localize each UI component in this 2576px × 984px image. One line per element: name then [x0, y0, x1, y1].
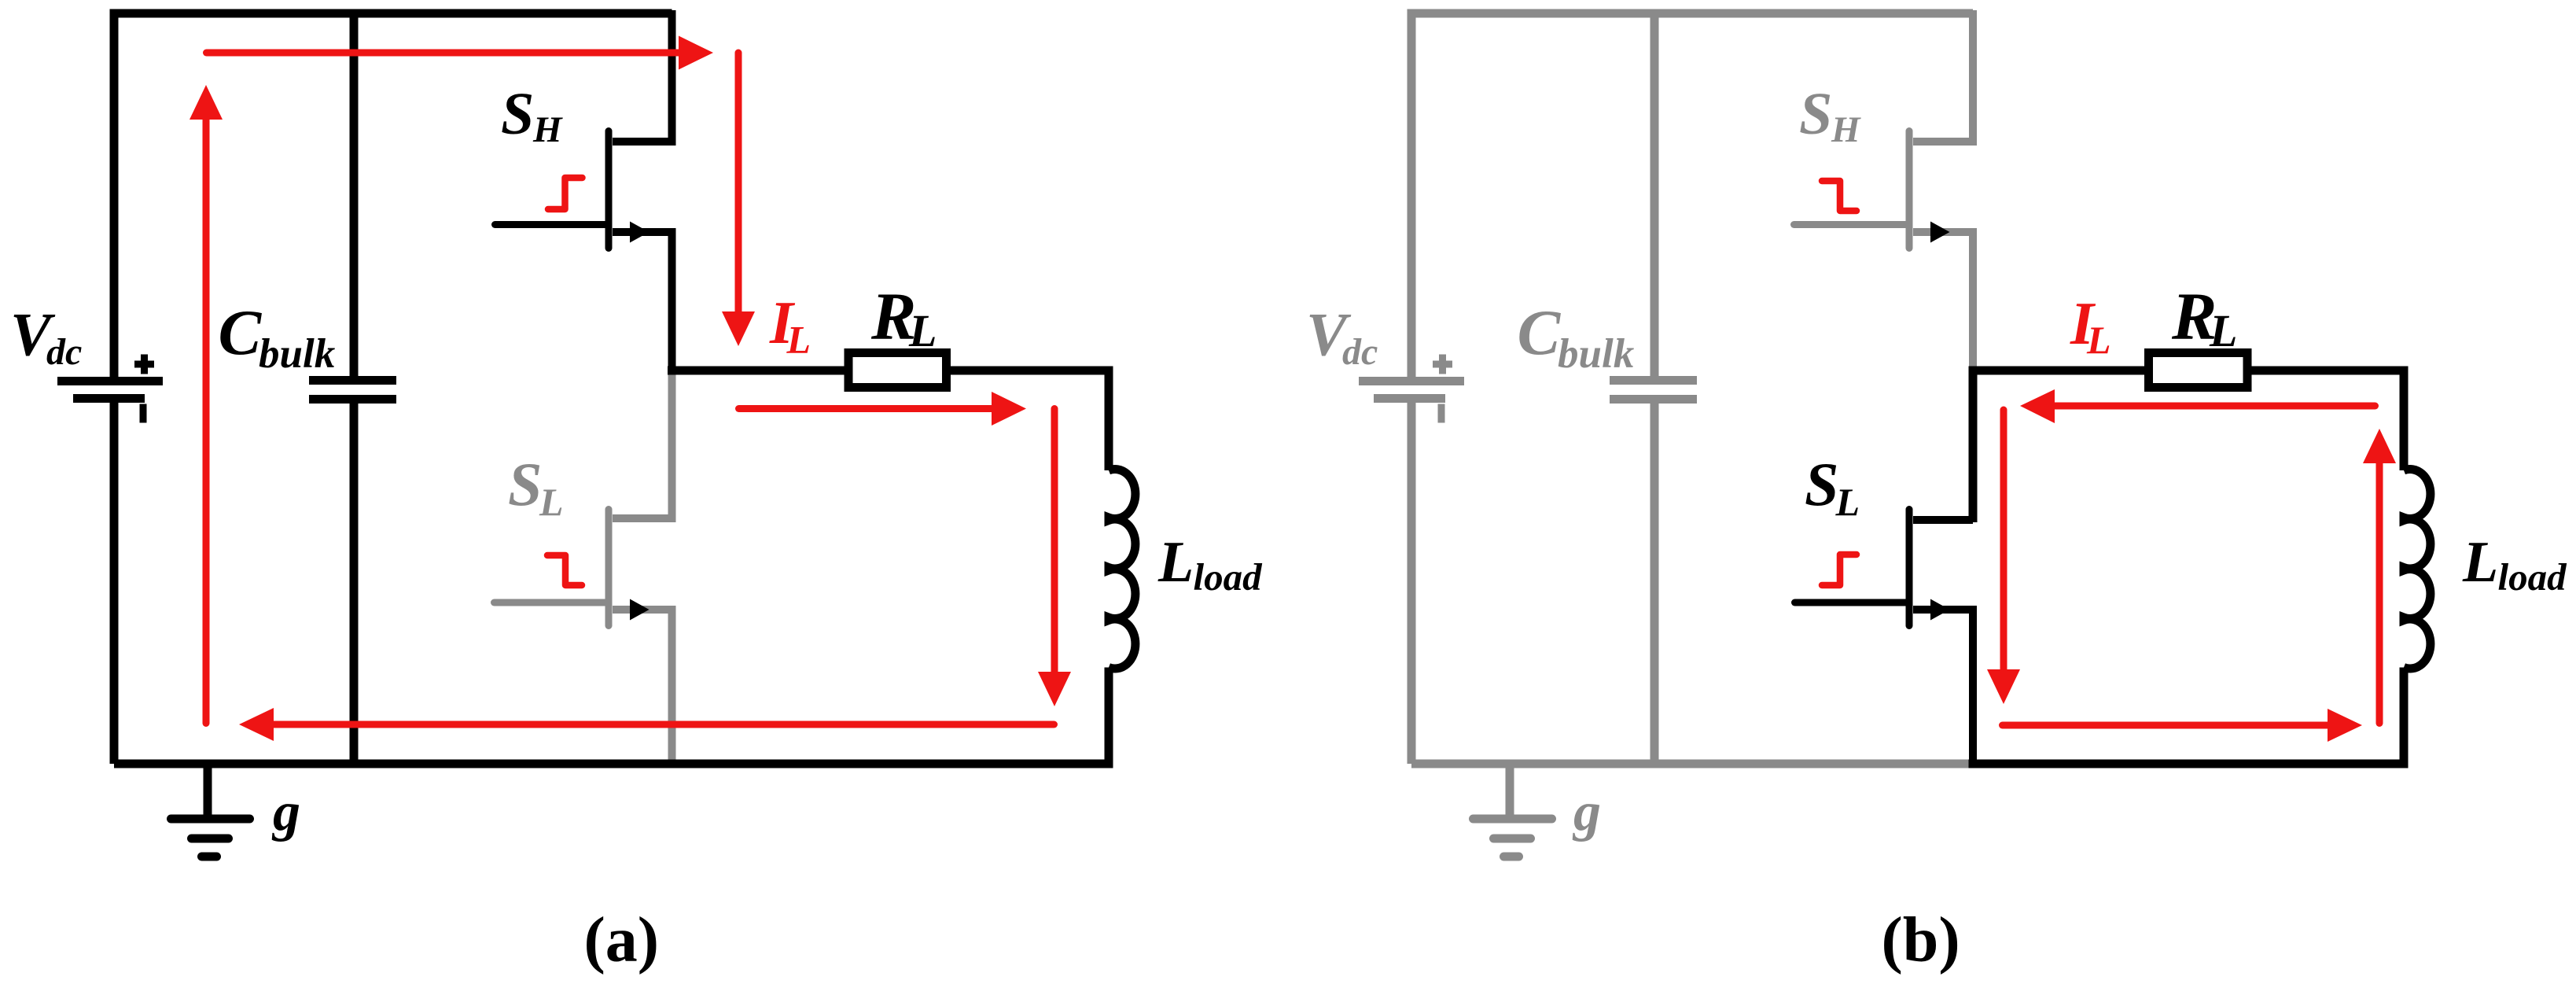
svg-text:L: L [2086, 318, 2111, 362]
svg-text:(a): (a) [584, 904, 660, 975]
wire: gray left branch + top rail + S_H drain branch [1411, 13, 1973, 381]
svg-text:dc: dc [1342, 331, 1378, 373]
ground symbol g (gray) [1506, 764, 1514, 819]
svg-text:L: L [1157, 530, 1194, 595]
resistor R_L body (b) [2149, 353, 2248, 388]
battery V_dc top plate [57, 377, 163, 385]
transistor S_H source lead down to output node [613, 232, 672, 370]
transistor S_H drain lead (gray) [1913, 10, 1973, 142]
current arrow: through R_L (red, rightward) [739, 405, 994, 412]
transistor S_L gate bar (black) [1906, 510, 1913, 626]
svg-text:S: S [508, 450, 542, 518]
wire: left branch top + top rail + S_H drain branch [114, 13, 672, 381]
current arrow: down through L_load (red) [1051, 409, 1058, 674]
transistor S_L gate lead (black) [1795, 599, 1907, 606]
battery minus mark [140, 404, 147, 423]
battery minus mark (gray) [1438, 404, 1445, 423]
gate pulse symbol (falling edge) at S_H (red) [1822, 181, 1857, 211]
capacitor C_bulk top plate [309, 376, 396, 385]
inductor L_load coils [1109, 470, 1135, 669]
svg-text:H: H [532, 109, 563, 150]
current arrow: up through C_bulk branch (red) [203, 120, 210, 724]
transistor S_L gate lead [495, 599, 606, 606]
svg-text:C: C [219, 297, 263, 368]
transistor S_L source lead + wire to bottom rail (black) [1913, 610, 1973, 764]
svg-text:(b): (b) [1882, 904, 1960, 975]
current arrow: bottom of loop (red, rightward, b) [2003, 722, 2328, 729]
svg-text:L: L [2462, 530, 2498, 595]
wire: resistor to inductor corner (b) [2247, 370, 2404, 470]
svg-text:H: H [1831, 109, 1861, 150]
battery V_dc bottom plate (gray) [1374, 394, 1445, 403]
current arrow: through R_L (red, leftward, b) [2054, 403, 2375, 410]
svg-text:L: L [539, 480, 564, 524]
transistor S_L (black, on): drain wire + left loop edge + top edge of loop [1913, 516, 1973, 524]
svg-text:bulk: bulk [259, 331, 336, 377]
current arrow: up through L_load (red, b) [2376, 463, 2383, 724]
wire: battery negative to bottom rail [110, 402, 119, 764]
battery V_dc top plate (gray) [1359, 377, 1464, 385]
svg-text:bulk: bulk [1558, 331, 1635, 377]
wire: output node to resistor R_L [668, 367, 850, 375]
transistor S_L gate bar [605, 510, 613, 626]
wire: capacitor branch upper [350, 13, 359, 377]
wire: gray capacitor branch lower [1650, 404, 1659, 764]
svg-text:C: C [1518, 297, 1562, 368]
transistor S_H gate lead [495, 221, 606, 228]
svg-text:L: L [908, 305, 937, 356]
resistor R_L body [848, 353, 947, 388]
wire: gray bottom rail [1411, 760, 1975, 768]
svg-text:dc: dc [46, 331, 82, 373]
transistor S_H gate bar (gray) [1906, 131, 1913, 249]
wire: left edge and top edge of load loop (b) [1973, 370, 2151, 522]
current arrow: down left side of loop (red, b) [2000, 410, 2007, 671]
transistor S_L source lead and wire down to ground rail [613, 610, 672, 764]
svg-text:S: S [1799, 81, 1832, 147]
battery plus mark [134, 355, 154, 374]
transistor S_H gate lead (gray) [1794, 221, 1907, 228]
capacitor C_bulk bottom plate (gray) [1610, 395, 1697, 404]
current arrow: top rail flow (red, rightward) [207, 50, 680, 57]
wire: capacitor branch lower [350, 404, 359, 764]
svg-text:L: L [2209, 305, 2237, 356]
svg-text:g: g [271, 782, 300, 842]
transistor S_L source arrowhead [1930, 599, 1950, 621]
current arrow: down through S_H (red) [735, 53, 742, 313]
svg-text:load: load [2498, 555, 2568, 599]
battery plus mark (gray) [1433, 355, 1452, 374]
current arrow: bottom return (red, leftward) [274, 721, 1054, 728]
svg-text:g: g [1572, 782, 1601, 842]
transistor S_H source arrowhead (black) [1930, 222, 1950, 243]
svg-text:S: S [1805, 450, 1838, 518]
ground symbol g [204, 764, 212, 819]
svg-text:S: S [501, 81, 534, 147]
wire: resistor to inductor corner [945, 370, 1109, 470]
transistor S_H drain lead [613, 10, 672, 142]
capacitor C_bulk bottom plate [309, 395, 396, 404]
svg-text:load: load [1194, 555, 1264, 599]
transistor S_L (gray, off) : drain wire from output node down to bar [495, 370, 672, 764]
gate pulse symbol (falling edge) at S_L [547, 555, 582, 585]
capacitor C_bulk top plate (gray) [1610, 376, 1697, 385]
gate pulse symbol (rising edge) at S_L (red) [1822, 555, 1857, 585]
transistor S_L drain lead (gray) [613, 370, 672, 518]
svg-text:L: L [786, 318, 811, 362]
wire: gray battery negative to bottom rail [1408, 402, 1416, 764]
wire: gray capacitor branch upper [1650, 13, 1659, 377]
transistor S_H gate bar [605, 131, 613, 249]
battery V_dc bottom plate [73, 394, 145, 403]
wire: inductor to bottom rail and bottom return rail [114, 668, 1109, 765]
transistor S_H source lead down to node (gray) [1913, 232, 1973, 367]
inductor L_load coils (b) [2404, 469, 2431, 669]
transistor S_H source arrowhead [630, 222, 650, 243]
transistor S_L source arrowhead [630, 599, 650, 621]
wire: inductor to bottom edge of loop (b) [1969, 668, 2405, 765]
svg-text:L: L [1835, 480, 1860, 524]
gate pulse symbol (rising edge) at S_H [548, 178, 583, 209]
